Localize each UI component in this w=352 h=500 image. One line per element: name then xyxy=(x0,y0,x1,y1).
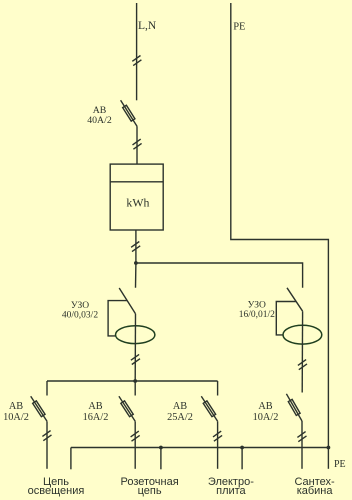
breaker AB2 10A/2 body rectangle xyxy=(33,401,45,417)
two-conductor slash marks below AB1 xyxy=(133,139,142,149)
svg-text:25А/2: 25А/2 xyxy=(167,412,193,423)
wire UZO1 to lower bus xyxy=(134,314,136,381)
svg-text:kWh: kWh xyxy=(126,196,149,210)
lower distribution bus xyxy=(47,380,218,382)
svg-text:PE: PE xyxy=(334,459,346,470)
svg-text:АВ: АВ xyxy=(258,401,272,412)
two-conductor slash marks below AB3 xyxy=(131,431,140,441)
RCD UZO1 40/0,03/2 blade xyxy=(119,288,135,314)
node A junction dot xyxy=(134,261,138,265)
svg-text:40А/2: 40А/2 xyxy=(87,115,112,126)
wire PE tap to lighting circuit xyxy=(70,448,72,470)
energy meter U1 kWh box xyxy=(110,164,163,230)
wire UZO2 to AB5 xyxy=(301,311,303,392)
wire AB5 to bathroom circuit xyxy=(301,421,303,469)
wire node A down to RCD1 xyxy=(135,263,137,288)
breaker AB3 16A/2 body rectangle xyxy=(121,401,133,417)
wire PE drop to bathroom circuit xyxy=(327,448,329,469)
wire branch bus from node A to right branch xyxy=(136,263,303,288)
two-conductor slash marks below AB2 xyxy=(42,431,51,441)
breaker AB3 16A/2 blade xyxy=(119,396,135,421)
RCD UZO2 16/0,01/2 blade xyxy=(287,288,303,311)
svg-text:10А/2: 10А/2 xyxy=(253,412,279,423)
wire kWh meter to junction node A xyxy=(135,230,137,263)
wire AB4 to electric stove circuit xyxy=(217,421,219,469)
wire AB1 to kWh meter xyxy=(136,126,138,164)
wire PE tap to stove circuit xyxy=(241,448,243,470)
wire PE tap to socket circuit xyxy=(160,448,162,470)
two-conductor slash marks below AB5 xyxy=(297,432,306,442)
breaker AB4 25A/2 body rectangle xyxy=(203,401,215,417)
breaker AB2 10A/2 blade xyxy=(31,396,47,421)
two-conductor slash marks below UZO2 xyxy=(298,360,307,370)
svg-text:кабина: кабина xyxy=(297,485,334,497)
svg-text:40/0,03/2: 40/0,03/2 xyxy=(62,310,98,320)
node D junction dot PE tap xyxy=(159,446,163,450)
two-conductor slash marks below kWh xyxy=(131,242,140,252)
RCD UZO2 differential transformer ellipse xyxy=(283,325,322,344)
two-conductor slash marks below AB4 xyxy=(213,431,222,441)
svg-text:PE: PE xyxy=(233,21,245,32)
wire AB2 to lighting circuit xyxy=(46,421,48,469)
RCD UZO1 differential transformer ellipse xyxy=(116,326,155,344)
svg-text:16А/2: 16А/2 xyxy=(83,412,109,423)
wire PE riser with jog xyxy=(231,3,329,448)
circuit breaker AB1 40A/2 body rectangle xyxy=(123,105,135,121)
node B junction dot on lower bus xyxy=(133,379,137,383)
RCD UZO1 actuator linkage bracket xyxy=(108,301,127,336)
breaker AB5 10A/2 blade xyxy=(286,394,302,421)
svg-text:16/0,01/2: 16/0,01/2 xyxy=(239,310,275,320)
two-conductor slash marks below UZO1 xyxy=(131,354,140,364)
wire AB3 to socket circuit xyxy=(134,421,136,469)
breaker AB2 10A/2 top stub xyxy=(46,381,48,396)
svg-text:освещения: освещения xyxy=(28,485,85,497)
svg-text:АВ: АВ xyxy=(173,401,187,412)
circuit breaker AB1 40A/2 blade xyxy=(121,100,137,126)
breaker AB4 25A/2 blade xyxy=(201,396,217,421)
node E junction dot PE tap xyxy=(240,446,244,450)
RCD UZO2 actuator linkage bracket xyxy=(276,302,296,335)
two-conductor slash marks on L,N riser xyxy=(132,56,141,66)
wire L,N riser xyxy=(136,3,138,100)
svg-text:L,N: L,N xyxy=(138,20,157,32)
svg-text:10А/2: 10А/2 xyxy=(3,412,29,423)
svg-text:АВ: АВ xyxy=(88,401,102,412)
PE distribution bus xyxy=(71,447,329,449)
breaker AB5 10A/2 body rectangle xyxy=(288,399,300,415)
svg-text:цепь: цепь xyxy=(138,485,162,497)
svg-text:АВ: АВ xyxy=(9,401,23,412)
breaker AB3 16A/2 top stub xyxy=(134,381,136,396)
energy meter U1 terminal compartment line xyxy=(110,181,163,183)
breaker AB4 25A/2 top stub xyxy=(217,381,219,396)
node C junction dot PE bus end xyxy=(327,446,331,450)
svg-text:плита: плита xyxy=(216,485,246,497)
